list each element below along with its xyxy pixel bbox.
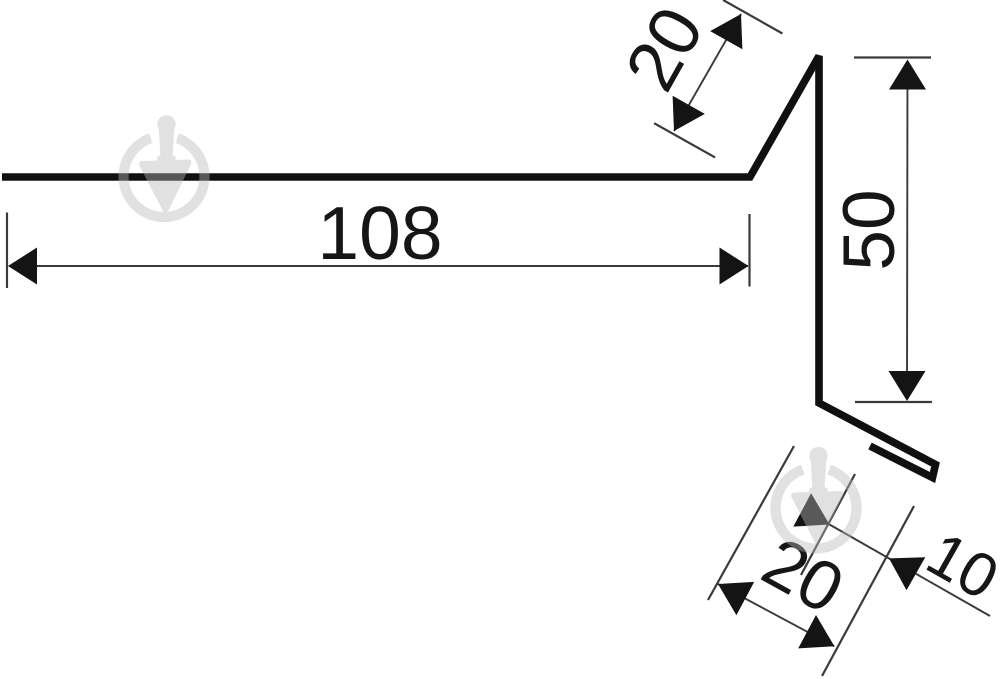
dim 20 top: dimension line xyxy=(674,14,741,131)
dim 108: dimension line xyxy=(9,265,748,267)
dim 108: right arrow xyxy=(720,248,749,285)
dim 10: middle extension line xyxy=(801,474,855,575)
svg-text:108: 108 xyxy=(317,191,442,275)
svg-text:50: 50 xyxy=(829,189,910,270)
dim 50: top arrow xyxy=(889,60,926,90)
dim 108: right extension line xyxy=(748,214,750,287)
dim 50: dimension line xyxy=(906,62,909,398)
dim 20 bottom: dimension line xyxy=(718,584,834,646)
watermark 2 (trowel logo, over dims) xyxy=(775,447,856,549)
profile: flashing cross-section (thick polyline) xyxy=(2,56,936,478)
dim 108: left extension line xyxy=(6,213,8,289)
dim 20 top: upper arrow xyxy=(710,14,742,49)
dim 10: leader/dimension line xyxy=(830,525,991,617)
watermark 1 (trowel logo, over profile) xyxy=(123,116,204,218)
dim 20 bottom: lower-right extension line xyxy=(822,506,914,676)
dim 108: left arrow xyxy=(8,248,37,285)
dim 20 top: upper extension line xyxy=(723,0,782,34)
dim 50: bottom arrow xyxy=(889,371,926,401)
dim 10: right arrow xyxy=(889,557,925,590)
dim 20 top: lower arrow xyxy=(673,96,705,131)
dim 50: top extension line xyxy=(854,56,931,58)
dim 20 bottom: left arrow xyxy=(718,582,754,615)
dim 10: left arrow xyxy=(793,493,829,526)
dim 20 top: lower extension line xyxy=(654,123,715,157)
dim 20 bottom: upper-left extension line xyxy=(708,446,794,600)
dim 20 bottom: right arrow xyxy=(798,615,834,648)
dim 50: bottom extension line xyxy=(855,401,932,403)
